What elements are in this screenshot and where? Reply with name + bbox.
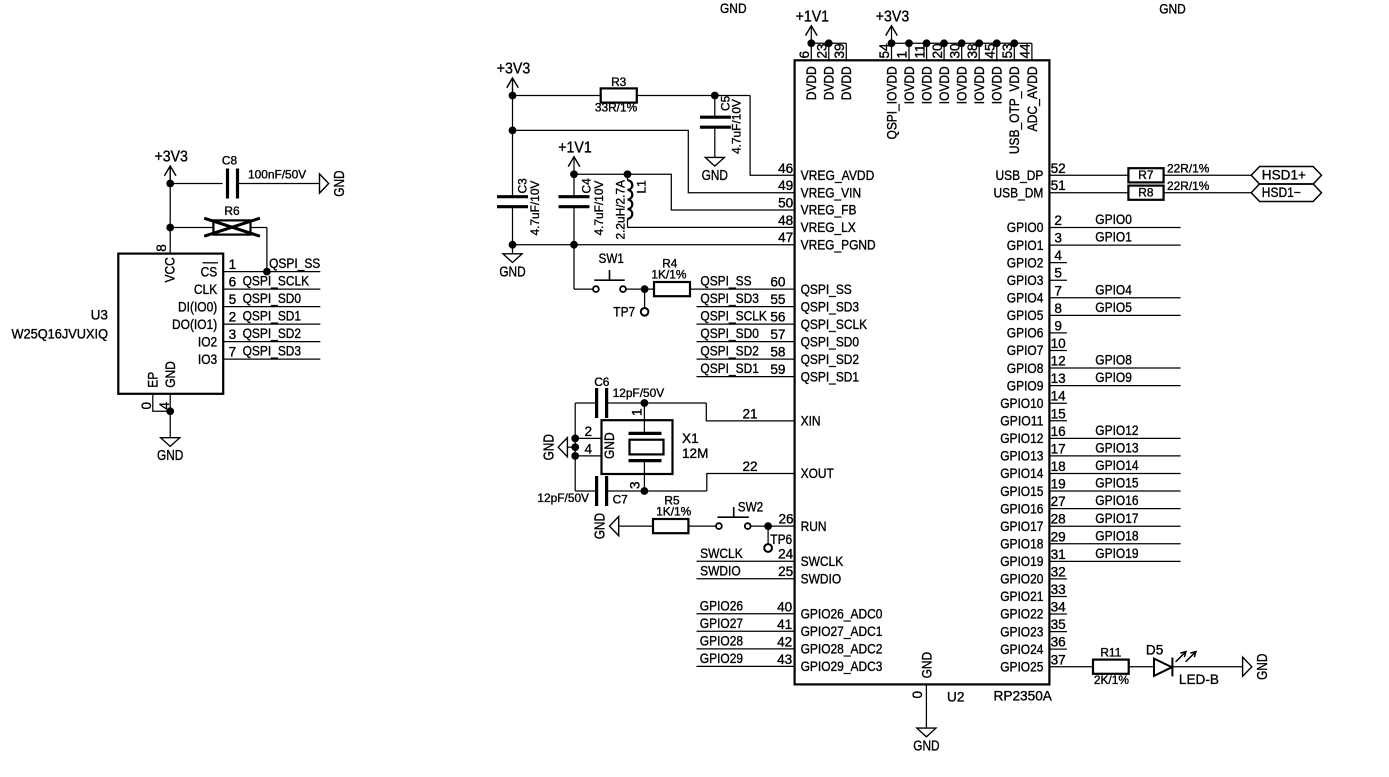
svg-text:1K/1%: 1K/1% xyxy=(651,267,686,281)
svg-text:W25Q16JVUXIQ: W25Q16JVUXIQ xyxy=(12,327,109,342)
svg-text:14: 14 xyxy=(1051,389,1067,404)
svg-text:GPIO13: GPIO13 xyxy=(1000,449,1043,464)
svg-text:SWDIO: SWDIO xyxy=(801,571,842,586)
svg-text:21: 21 xyxy=(742,406,757,421)
svg-text:45: 45 xyxy=(982,43,997,58)
svg-text:22: 22 xyxy=(742,459,757,474)
svg-text:+3V3: +3V3 xyxy=(155,149,188,166)
svg-text:USB_OTP_VDD: USB_OTP_VDD xyxy=(1007,66,1022,154)
svg-text:55: 55 xyxy=(770,292,785,307)
svg-text:GND: GND xyxy=(1254,654,1271,680)
svg-text:49: 49 xyxy=(778,178,793,193)
svg-text:DVDD: DVDD xyxy=(822,66,837,100)
svg-text:5: 5 xyxy=(229,292,237,307)
svg-text:42: 42 xyxy=(777,634,792,649)
svg-text:15: 15 xyxy=(1051,406,1066,421)
svg-text:QSPI_SD1: QSPI_SD1 xyxy=(801,369,860,384)
svg-text:GND: GND xyxy=(592,513,609,539)
svg-text:GPIO19: GPIO19 xyxy=(1095,546,1138,561)
svg-text:24: 24 xyxy=(778,547,794,562)
svg-text:GPIO6: GPIO6 xyxy=(1007,326,1044,341)
svg-text:6: 6 xyxy=(797,51,812,59)
svg-text:GPIO27: GPIO27 xyxy=(700,616,743,631)
svg-text:GPIO28_ADC2: GPIO28_ADC2 xyxy=(801,642,883,657)
svg-text:GND: GND xyxy=(163,361,178,388)
svg-text:GPIO21: GPIO21 xyxy=(1000,589,1043,604)
svg-text:12pF/50V: 12pF/50V xyxy=(613,386,665,400)
svg-text:GPIO4: GPIO4 xyxy=(1095,282,1132,297)
svg-text:CLK: CLK xyxy=(194,282,217,297)
svg-text:38: 38 xyxy=(965,43,980,58)
svg-text:50: 50 xyxy=(778,196,794,211)
svg-text:25: 25 xyxy=(778,564,793,579)
svg-text:59: 59 xyxy=(770,362,785,377)
svg-text:SWCLK: SWCLK xyxy=(801,554,844,569)
svg-text:GND: GND xyxy=(602,432,617,459)
svg-text:DVDD: DVDD xyxy=(804,66,819,100)
svg-text:QSPI_SCLK: QSPI_SCLK xyxy=(243,274,310,289)
svg-text:USB_DP: USB_DP xyxy=(996,168,1044,183)
svg-text:2: 2 xyxy=(584,424,592,439)
svg-text:VCC: VCC xyxy=(162,257,177,282)
svg-text:QSPI_SCLK: QSPI_SCLK xyxy=(700,309,767,324)
svg-text:GND: GND xyxy=(702,167,728,184)
svg-text:GPIO7: GPIO7 xyxy=(1007,343,1044,358)
svg-text:USB_DM: USB_DM xyxy=(994,185,1044,200)
svg-text:22R/1%: 22R/1% xyxy=(1167,161,1210,175)
svg-text:16: 16 xyxy=(1051,424,1066,439)
svg-text:GPIO0: GPIO0 xyxy=(1095,212,1132,227)
svg-text:GND: GND xyxy=(331,170,348,196)
svg-text:2K/1%: 2K/1% xyxy=(1094,673,1129,687)
svg-text:GND: GND xyxy=(157,447,183,464)
svg-text:QSPI_SD1: QSPI_SD1 xyxy=(243,309,302,324)
svg-text:GPIO8: GPIO8 xyxy=(1095,353,1132,368)
svg-text:40: 40 xyxy=(777,599,793,614)
svg-text:11: 11 xyxy=(912,44,927,58)
svg-text:QSPI_SD0: QSPI_SD0 xyxy=(801,334,860,349)
svg-text:CS: CS xyxy=(201,264,218,279)
svg-text:4.7uF/10V: 4.7uF/10V xyxy=(592,181,606,236)
svg-text:43: 43 xyxy=(777,652,792,667)
svg-text:GPIO22: GPIO22 xyxy=(1000,607,1043,622)
svg-text:+3V3: +3V3 xyxy=(497,61,530,78)
svg-text:QSPI_SD1: QSPI_SD1 xyxy=(700,361,759,376)
svg-text:U3: U3 xyxy=(91,308,108,323)
svg-text:52: 52 xyxy=(1051,161,1066,176)
svg-text:GPIO0: GPIO0 xyxy=(1007,220,1044,235)
svg-text:36: 36 xyxy=(1051,635,1066,650)
svg-text:29: 29 xyxy=(1051,529,1066,544)
svg-text:RUN: RUN xyxy=(801,519,827,534)
svg-text:GPIO17: GPIO17 xyxy=(1000,519,1043,534)
svg-text:9: 9 xyxy=(1054,318,1062,333)
svg-text:GPIO9: GPIO9 xyxy=(1095,370,1132,385)
svg-text:DO(IO1): DO(IO1) xyxy=(172,317,217,332)
svg-text:47: 47 xyxy=(778,230,793,245)
svg-text:+1V1: +1V1 xyxy=(558,139,591,156)
svg-text:GPIO1: GPIO1 xyxy=(1095,230,1132,245)
svg-text:53: 53 xyxy=(1000,43,1015,58)
svg-text:58: 58 xyxy=(770,345,785,360)
svg-text:23: 23 xyxy=(814,43,829,58)
svg-text:DI(IO0): DI(IO0) xyxy=(178,299,217,314)
svg-text:C8: C8 xyxy=(222,154,238,168)
svg-text:GPIO8: GPIO8 xyxy=(1007,361,1044,376)
svg-text:2: 2 xyxy=(1054,213,1062,228)
svg-text:QSPI_SD0: QSPI_SD0 xyxy=(700,326,759,341)
svg-text:4: 4 xyxy=(1054,248,1062,263)
svg-text:17: 17 xyxy=(1051,441,1066,456)
svg-text:GPIO2: GPIO2 xyxy=(1007,255,1044,270)
svg-text:QSPI_SS: QSPI_SS xyxy=(801,282,852,297)
svg-text:QSPI_SS: QSPI_SS xyxy=(269,256,320,271)
svg-text:13: 13 xyxy=(1051,371,1066,386)
svg-text:34: 34 xyxy=(1051,600,1067,615)
svg-text:GPIO16: GPIO16 xyxy=(1095,493,1138,508)
svg-text:44: 44 xyxy=(1018,43,1033,59)
svg-text:DVDD: DVDD xyxy=(839,66,854,100)
svg-text:39: 39 xyxy=(832,43,847,58)
svg-text:5: 5 xyxy=(1054,266,1062,281)
svg-text:GPIO26: GPIO26 xyxy=(700,598,743,613)
svg-text:51: 51 xyxy=(1051,178,1066,193)
svg-text:GPIO4: GPIO4 xyxy=(1007,290,1044,305)
svg-text:GPIO15: GPIO15 xyxy=(1095,476,1138,491)
svg-text:3: 3 xyxy=(229,327,237,342)
svg-text:GPIO27_ADC1: GPIO27_ADC1 xyxy=(801,624,883,639)
svg-text:GPIO14: GPIO14 xyxy=(1000,466,1044,481)
svg-text:31: 31 xyxy=(1051,547,1066,562)
svg-text:GPIO5: GPIO5 xyxy=(1095,300,1132,315)
svg-text:+3V3: +3V3 xyxy=(876,8,909,25)
svg-text:GPIO13: GPIO13 xyxy=(1095,441,1138,456)
svg-text:33R/1%: 33R/1% xyxy=(595,101,638,115)
svg-text:19: 19 xyxy=(1051,477,1066,492)
svg-text:1: 1 xyxy=(229,257,237,272)
svg-text:GPIO3: GPIO3 xyxy=(1007,273,1044,288)
svg-text:32: 32 xyxy=(1051,564,1066,579)
svg-text:IOVDD: IOVDD xyxy=(937,66,952,104)
svg-text:GPIO19: GPIO19 xyxy=(1000,554,1043,569)
svg-text:GPIO15: GPIO15 xyxy=(1000,484,1043,499)
svg-text:48: 48 xyxy=(778,213,793,228)
svg-text:QSPI_SD2: QSPI_SD2 xyxy=(700,344,759,359)
svg-text:1K/1%: 1K/1% xyxy=(656,505,691,519)
svg-text:GPIO28: GPIO28 xyxy=(700,634,743,649)
svg-text:SWCLK: SWCLK xyxy=(700,546,743,561)
svg-text:IOVDD: IOVDD xyxy=(902,66,917,104)
svg-text:6: 6 xyxy=(229,275,237,290)
svg-text:GPIO23: GPIO23 xyxy=(1000,624,1043,639)
svg-text:12M: 12M xyxy=(682,446,708,461)
svg-text:7: 7 xyxy=(229,345,237,360)
svg-text:2.2uH/2.7A: 2.2uH/2.7A xyxy=(613,180,627,240)
svg-text:4.7uF/10V: 4.7uF/10V xyxy=(730,99,744,154)
svg-text:22R/1%: 22R/1% xyxy=(1167,179,1210,193)
svg-text:IOVDD: IOVDD xyxy=(955,66,970,104)
svg-text:QSPI_SD0: QSPI_SD0 xyxy=(243,291,302,306)
svg-text:28: 28 xyxy=(1051,512,1066,527)
svg-text:GPIO29_ADC3: GPIO29_ADC3 xyxy=(801,659,883,674)
svg-text:GPIO16: GPIO16 xyxy=(1000,501,1043,516)
svg-text:TP6: TP6 xyxy=(770,532,792,547)
svg-text:D5: D5 xyxy=(1146,643,1163,658)
svg-text:GPIO18: GPIO18 xyxy=(1000,536,1043,551)
svg-text:46: 46 xyxy=(778,161,793,176)
svg-text:18: 18 xyxy=(1051,459,1066,474)
svg-text:GND: GND xyxy=(919,652,934,679)
svg-text:GND: GND xyxy=(499,263,525,280)
svg-text:8: 8 xyxy=(154,244,169,252)
svg-text:QSPI_IOVDD: QSPI_IOVDD xyxy=(884,66,899,139)
svg-text:35: 35 xyxy=(1051,617,1066,632)
svg-text:GPIO9: GPIO9 xyxy=(1007,378,1044,393)
svg-text:X1: X1 xyxy=(682,431,699,446)
svg-text:3: 3 xyxy=(628,481,643,489)
svg-text:GPIO18: GPIO18 xyxy=(1095,528,1138,543)
svg-text:4: 4 xyxy=(584,441,592,456)
svg-text:VREG_LX: VREG_LX xyxy=(801,220,856,235)
svg-text:0: 0 xyxy=(139,402,154,410)
svg-text:IO3: IO3 xyxy=(198,352,217,367)
svg-text:20: 20 xyxy=(930,43,945,59)
svg-text:GPIO29: GPIO29 xyxy=(700,651,743,666)
svg-text:VREG_FB: VREG_FB xyxy=(801,203,857,218)
svg-text:R3: R3 xyxy=(611,75,627,89)
svg-text:GPIO20: GPIO20 xyxy=(1000,572,1044,587)
svg-text:30: 30 xyxy=(947,43,962,59)
svg-text:GND: GND xyxy=(720,1,747,16)
svg-text:26: 26 xyxy=(778,512,793,527)
svg-text:VREG_PGND: VREG_PGND xyxy=(801,237,876,252)
svg-text:33: 33 xyxy=(1051,582,1066,597)
svg-text:IOVDD: IOVDD xyxy=(972,66,987,104)
svg-text:EP: EP xyxy=(146,372,161,388)
svg-text:41: 41 xyxy=(777,617,792,632)
svg-text:SW1: SW1 xyxy=(599,251,624,266)
svg-text:QSPI_SD2: QSPI_SD2 xyxy=(801,352,860,367)
svg-text:IO2: IO2 xyxy=(198,334,217,349)
svg-text:57: 57 xyxy=(770,327,785,342)
svg-text:GPIO26_ADC0: GPIO26_ADC0 xyxy=(801,607,883,622)
svg-text:7: 7 xyxy=(1054,283,1062,298)
svg-text:QSPI_SD3: QSPI_SD3 xyxy=(801,299,860,314)
svg-text:+1V1: +1V1 xyxy=(796,8,829,25)
svg-text:3: 3 xyxy=(1054,231,1062,246)
svg-text:VREG_VIN: VREG_VIN xyxy=(801,185,862,200)
svg-text:R8: R8 xyxy=(1138,186,1154,200)
svg-text:QSPI_SCLK: QSPI_SCLK xyxy=(801,317,868,332)
svg-text:L1: L1 xyxy=(634,180,648,194)
svg-text:C7: C7 xyxy=(613,492,629,506)
svg-text:GND: GND xyxy=(913,738,939,755)
svg-text:4.7uF/10V: 4.7uF/10V xyxy=(528,181,542,236)
svg-text:HSD1+: HSD1+ xyxy=(1262,168,1306,183)
svg-text:0: 0 xyxy=(910,691,925,699)
svg-text:IOVDD: IOVDD xyxy=(990,66,1005,104)
svg-text:GND: GND xyxy=(1159,2,1186,17)
svg-text:QSPI_SD3: QSPI_SD3 xyxy=(700,291,759,306)
svg-text:C6: C6 xyxy=(594,375,610,389)
svg-text:U2: U2 xyxy=(947,690,964,705)
svg-text:RP2350A: RP2350A xyxy=(994,689,1053,704)
svg-text:4: 4 xyxy=(157,402,172,410)
svg-text:GPIO17: GPIO17 xyxy=(1095,511,1138,526)
svg-text:R7: R7 xyxy=(1138,168,1154,182)
svg-text:12: 12 xyxy=(1051,354,1066,369)
svg-text:IOVDD: IOVDD xyxy=(919,66,934,104)
svg-text:TP7: TP7 xyxy=(613,305,635,320)
svg-text:54: 54 xyxy=(877,43,892,59)
svg-text:VREG_AVDD: VREG_AVDD xyxy=(801,168,875,183)
svg-text:GPIO14: GPIO14 xyxy=(1095,458,1139,473)
svg-text:GPIO10: GPIO10 xyxy=(1000,396,1044,411)
svg-text:27: 27 xyxy=(1051,494,1066,509)
svg-text:HSD1−: HSD1− xyxy=(1262,185,1301,200)
svg-text:60: 60 xyxy=(770,275,786,290)
svg-text:ADC_AVDD: ADC_AVDD xyxy=(1025,66,1040,131)
svg-text:8: 8 xyxy=(1054,301,1062,316)
svg-text:XIN: XIN xyxy=(801,414,821,429)
svg-text:37: 37 xyxy=(1051,652,1066,667)
svg-text:12pF/50V: 12pF/50V xyxy=(537,491,589,505)
svg-text:QSPI_SD3: QSPI_SD3 xyxy=(243,344,302,359)
svg-text:100nF/50V: 100nF/50V xyxy=(248,168,306,182)
svg-text:GPIO25: GPIO25 xyxy=(1000,659,1043,674)
svg-text:1: 1 xyxy=(630,408,645,416)
svg-text:SW2: SW2 xyxy=(738,500,763,515)
svg-text:GPIO24: GPIO24 xyxy=(1000,642,1044,657)
svg-text:GPIO12: GPIO12 xyxy=(1000,431,1043,446)
svg-text:10: 10 xyxy=(1051,336,1067,351)
svg-text:R11: R11 xyxy=(1100,645,1121,659)
svg-text:QSPI_SD2: QSPI_SD2 xyxy=(243,326,302,341)
svg-text:LED-B: LED-B xyxy=(1179,672,1219,687)
svg-text:1: 1 xyxy=(895,51,910,59)
svg-text:GPIO11: GPIO11 xyxy=(1000,413,1043,428)
svg-text:R6: R6 xyxy=(224,204,240,218)
svg-text:SWDIO: SWDIO xyxy=(700,563,741,578)
svg-text:GPIO1: GPIO1 xyxy=(1007,238,1044,253)
svg-text:GPIO5: GPIO5 xyxy=(1007,308,1044,323)
svg-text:XOUT: XOUT xyxy=(801,466,834,481)
svg-text:GPIO12: GPIO12 xyxy=(1095,423,1138,438)
svg-text:GND: GND xyxy=(540,434,557,460)
svg-text:QSPI_SS: QSPI_SS xyxy=(700,274,751,289)
svg-text:2: 2 xyxy=(229,310,237,325)
svg-text:56: 56 xyxy=(770,310,785,325)
